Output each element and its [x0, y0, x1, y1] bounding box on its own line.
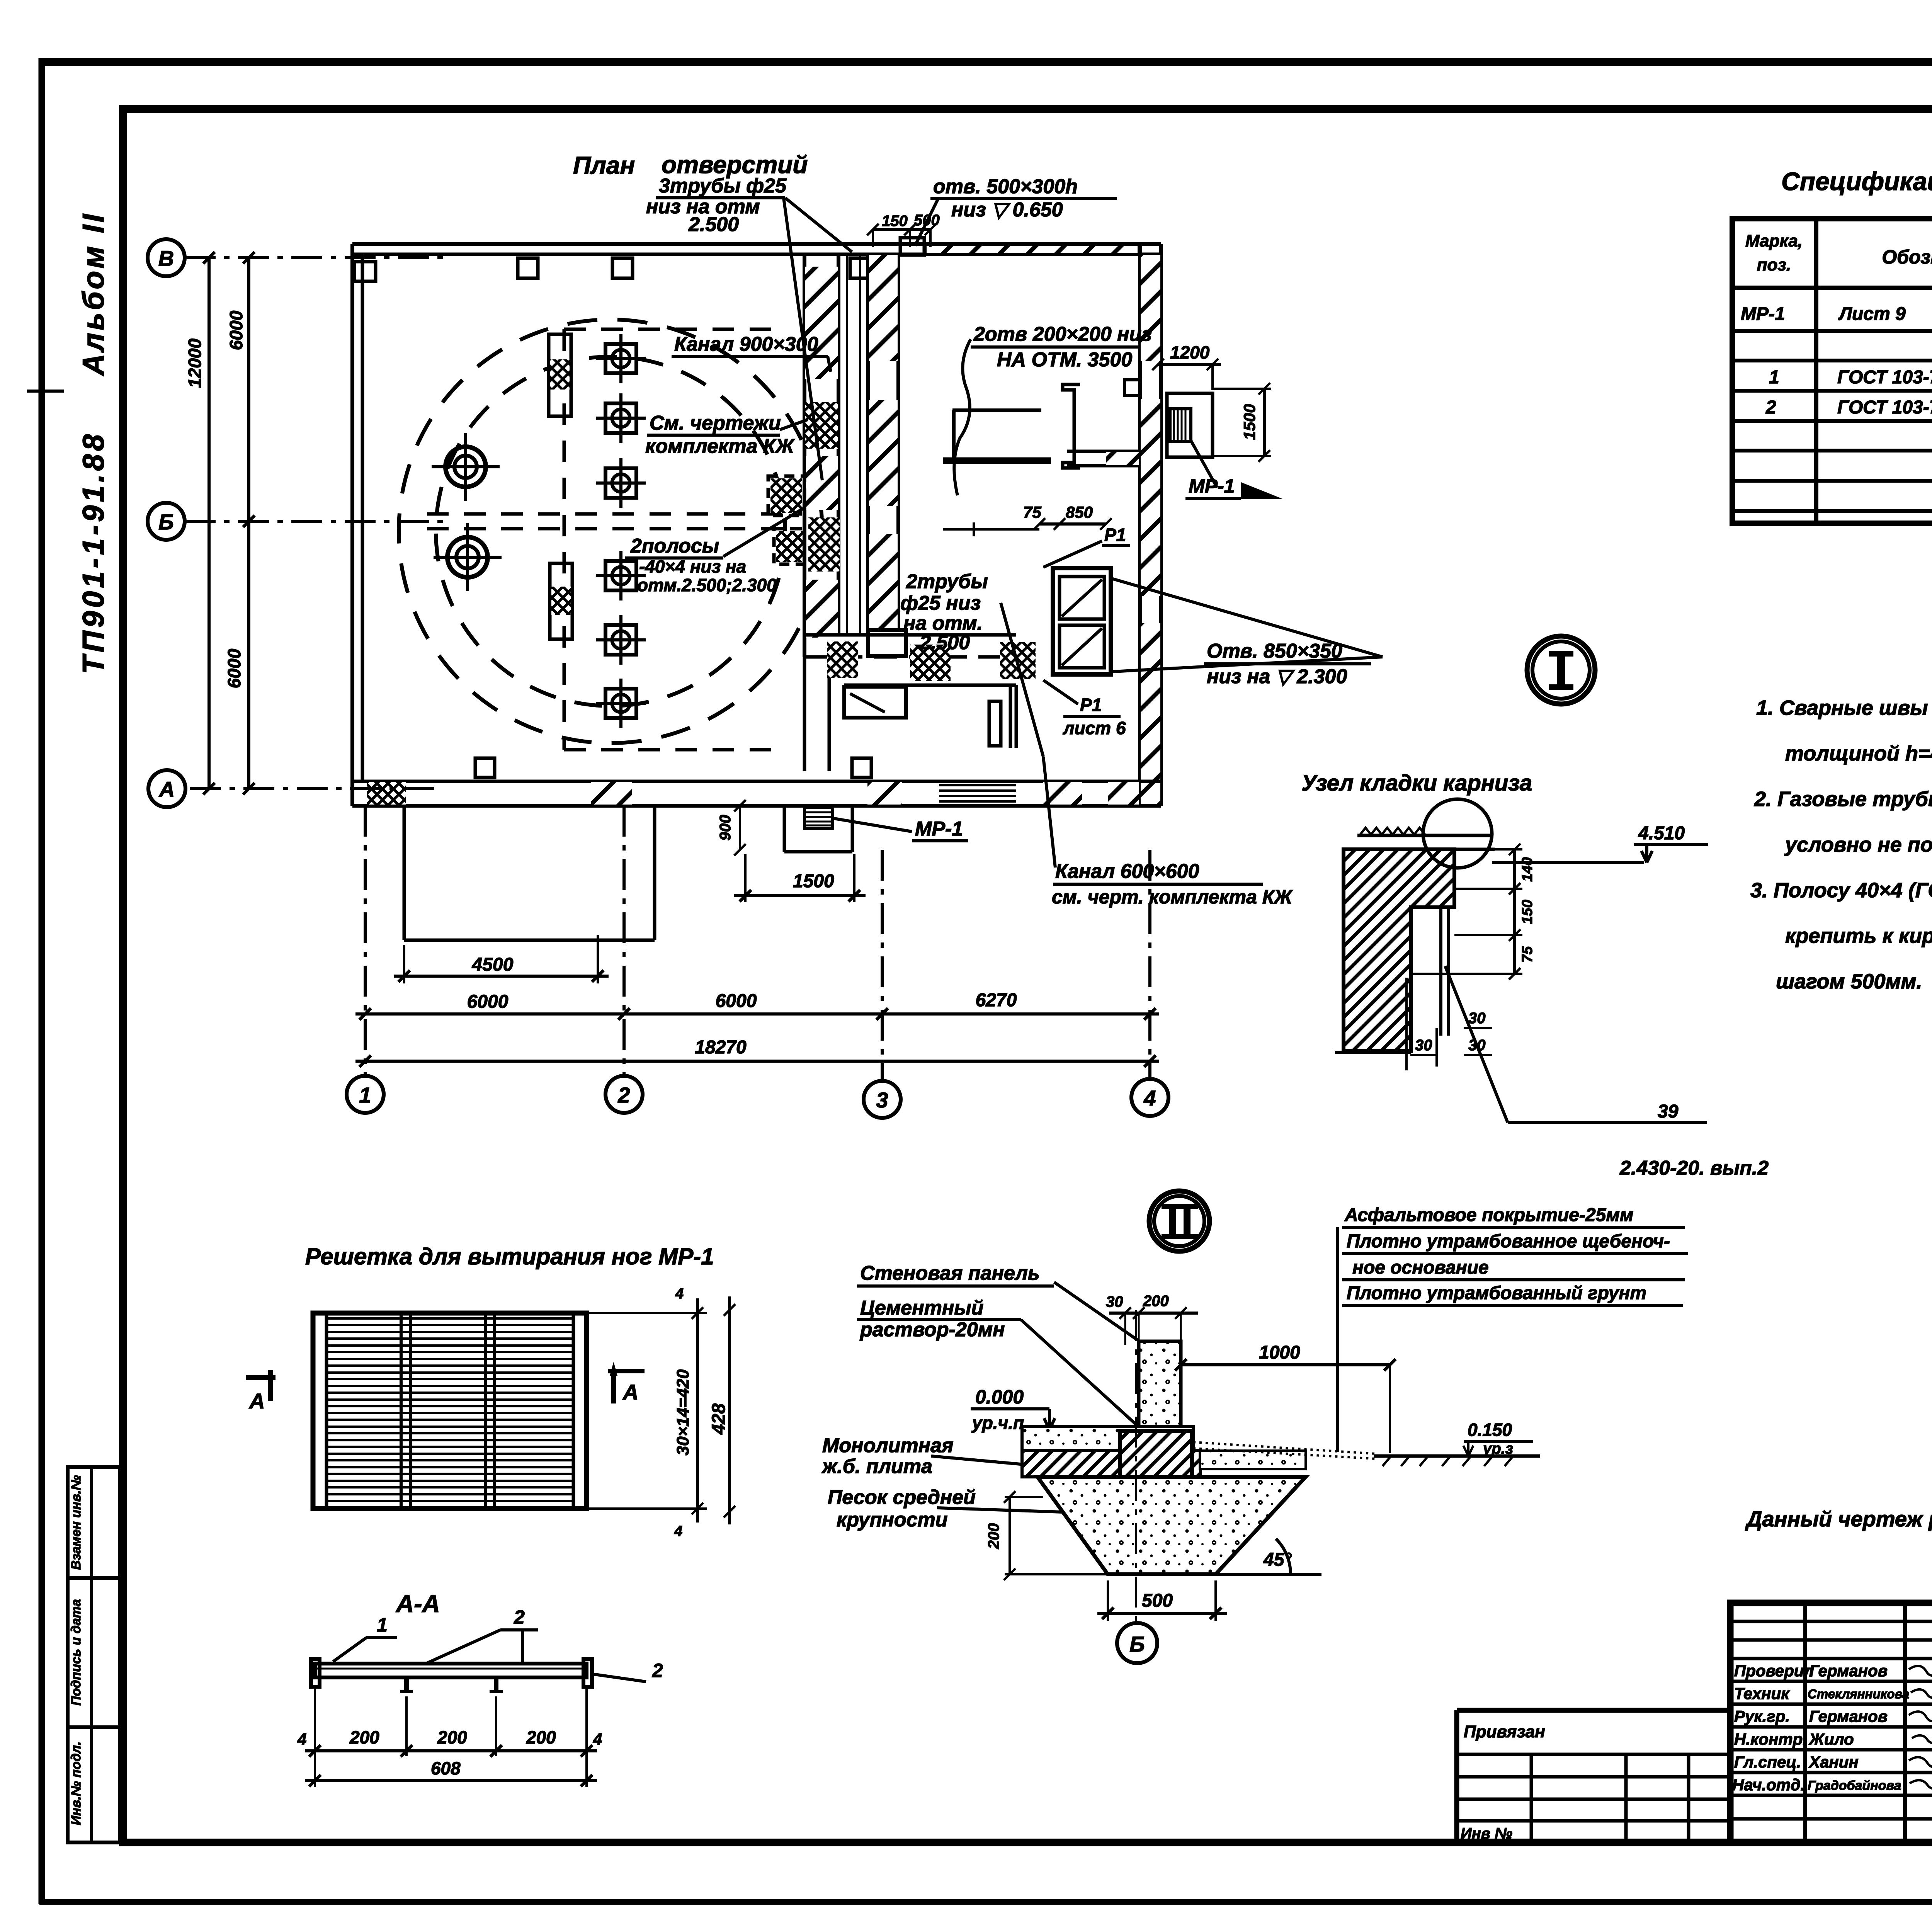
- asphalt slope dotted: [1193, 1442, 1376, 1454]
- main outline: [1730, 1603, 1932, 1842]
- svg-text:Узел кладки карниза: Узел кладки карниза: [1301, 771, 1532, 796]
- svg-text:раствор-20мн: раствор-20мн: [859, 1318, 1005, 1341]
- dim 30 200: [1109, 1312, 1198, 1315]
- svg-text:толщиной h=4мм.: толщиной h=4мм.: [1785, 742, 1932, 765]
- svg-text:2.500: 2.500: [688, 213, 739, 236]
- interior wall: [1067, 450, 1140, 453]
- svg-text:Инв №: Инв №: [1461, 1825, 1512, 1842]
- wall mounted box W2: [774, 529, 804, 564]
- section mark A right: [608, 1369, 645, 1373]
- grating right dims: [587, 1312, 707, 1314]
- top wall hatched parapet right part: [925, 245, 1139, 254]
- NOTES: [1750, 696, 1932, 993]
- signatures squiggles: [1909, 1666, 1932, 1676]
- porch depth dim 900: [739, 806, 741, 850]
- svg-text:30: 30: [1415, 1037, 1432, 1054]
- table grid: [1732, 219, 1932, 523]
- svg-text:ур.ч.п.: ур.ч.п.: [971, 1413, 1029, 1433]
- svg-text:1200: 1200: [1170, 342, 1210, 362]
- svg-text:3трубы ф25: 3трубы ф25: [659, 175, 787, 197]
- svg-text:200: 200: [349, 1727, 379, 1747]
- dim 1000: [1181, 1363, 1390, 1366]
- TITLE BLOCK: [1457, 1603, 1932, 1892]
- PLAN: interior tank and equipment: [399, 320, 822, 750]
- BOTTOM DIMENSIONS: [355, 935, 1159, 1067]
- svg-text:200: 200: [526, 1727, 556, 1747]
- svg-text:6000: 6000: [467, 992, 509, 1012]
- door jamb: [868, 630, 906, 656]
- foundation block hatched: [1120, 1431, 1192, 1532]
- svg-text:140: 140: [1519, 857, 1536, 881]
- svg-text:условно не показаны (см. че: условно не показаны (см. чертежи комплек…: [1784, 833, 1932, 856]
- DETAIL II: foundation: [821, 1191, 1688, 1663]
- column axis 4: [1148, 850, 1151, 1078]
- dashed pipe gallery: [564, 328, 781, 331]
- left border tick: [27, 390, 64, 393]
- svg-text:Привязан: Привязан: [1464, 1722, 1545, 1741]
- svg-text:лист 6: лист 6: [1063, 718, 1126, 738]
- svg-text:Н.контр.: Н.контр.: [1734, 1730, 1807, 1748]
- dim 1200: [1158, 363, 1221, 366]
- svg-text:Канал 900×300: Канал 900×300: [674, 333, 818, 356]
- dim row 6000 6000 6270: [355, 1012, 1159, 1016]
- svg-text:МР-1: МР-1: [1741, 304, 1785, 324]
- svg-text:30: 30: [1468, 1010, 1486, 1027]
- svg-text:Спецификация на решетку МР-1: Спецификация на решетку МР-1: [1781, 167, 1932, 196]
- floor slab speckled: [1022, 1427, 1193, 1451]
- svg-text:Подпись и дата: Подпись и дата: [69, 1599, 83, 1706]
- svg-text:НА ОТМ. 3500: НА ОТМ. 3500: [997, 349, 1132, 371]
- svg-text:Лист 9: Лист 9: [1838, 304, 1906, 324]
- MR-1 ENTRANCE DETAIL (top right of plan): [1152, 342, 1284, 499]
- svg-text:отв. 500×300h: отв. 500×300h: [933, 175, 1078, 198]
- svg-text:Инв.№ подл.: Инв.№ подл.: [69, 1742, 83, 1825]
- svg-text:Плотно утрамбованный грунт: Плотно утрамбованный грунт: [1347, 1283, 1646, 1303]
- svg-text:Плотно утрамбованное щебеноч-: Плотно утрамбованное щебеноч-: [1347, 1231, 1670, 1252]
- sand pit trapezoid: [1037, 1477, 1306, 1574]
- PLAN INNER LABELS: [625, 323, 1371, 908]
- detail bubble circle: [1423, 799, 1492, 868]
- anchor plate A6: [596, 679, 646, 728]
- wall panel: [1139, 1341, 1181, 1428]
- leader pipes: [785, 198, 852, 252]
- leader to MR-1 label: [834, 818, 912, 832]
- svg-text:Р1: Р1: [1080, 695, 1102, 715]
- pump target B1: [432, 433, 500, 501]
- anchor plate A1: [596, 334, 646, 383]
- svg-text:1. Сварные швы решетки МР-1: 1. Сварные швы решетки МР-1 выполнять: [1756, 696, 1932, 720]
- dashed tank circle outer: [399, 320, 822, 743]
- svg-text:200: 200: [437, 1727, 467, 1747]
- svg-text:комплекта КЖ: комплекта КЖ: [645, 435, 795, 458]
- bottom wall: [352, 780, 1161, 783]
- svg-text:75: 75: [1023, 503, 1041, 521]
- left wall: [350, 244, 354, 806]
- svg-text:2отв 200×200 низ: 2отв 200×200 низ: [973, 323, 1152, 345]
- top wall: [352, 242, 1161, 246]
- section mark A left: [246, 1375, 276, 1380]
- svg-text:Проверил: Проверил: [1734, 1662, 1814, 1680]
- svg-text:2полосы: 2полосы: [630, 535, 719, 557]
- left dim line 12000: [207, 258, 211, 789]
- svg-text:200: 200: [1143, 1293, 1169, 1310]
- left strip cells: [68, 1467, 120, 1842]
- svg-text:Асфальтовое покрытие-25мм: Асфальтовое покрытие-25мм: [1344, 1205, 1633, 1225]
- svg-text:А: А: [622, 1380, 638, 1404]
- svg-text:2. Газовые трубы в камерах: 2. Газовые трубы в камерах трансформатор…: [1754, 788, 1932, 811]
- svg-text:6270: 6270: [976, 990, 1017, 1010]
- dim 500: [1107, 1580, 1109, 1621]
- ventilation unit P1: [1053, 568, 1111, 674]
- svg-text:Стеновая панель: Стеновая панель: [860, 1262, 1040, 1284]
- dashed tank circle inner: [436, 357, 785, 706]
- svg-text:30: 30: [1106, 1293, 1123, 1310]
- right wall hatch segments: [1141, 255, 1160, 361]
- anchor plate A5: [596, 615, 646, 665]
- svg-text:ное основание: ное основание: [1352, 1257, 1489, 1278]
- svg-text:В: В: [158, 246, 174, 270]
- sheet outer border left: [39, 58, 45, 1904]
- level 4.510: [1492, 861, 1644, 864]
- DETAIL I: cornice masonry: [1301, 636, 1769, 1179]
- PLAN: upper right room fittings: [943, 339, 1383, 674]
- svg-text:ГОСТ 103-76*: ГОСТ 103-76*: [1837, 397, 1932, 418]
- svg-text:900: 900: [717, 815, 734, 841]
- attachment table: [1457, 1708, 1730, 1713]
- leader to series ref: [1445, 966, 1508, 1123]
- svg-text:А: А: [248, 1389, 265, 1413]
- pump target B2: [434, 523, 502, 591]
- svg-text:Обозначение: Обозначение: [1882, 246, 1932, 268]
- svg-text:4: 4: [674, 1523, 682, 1540]
- svg-text:Стеклянникова: Стеклянникова: [1808, 1687, 1909, 1701]
- svg-text:6000: 6000: [224, 648, 244, 688]
- svg-text:низ на ▽ 2.300: низ на ▽ 2.300: [1207, 665, 1347, 688]
- svg-text:75: 75: [1519, 946, 1536, 963]
- anchor plate A2: [596, 393, 646, 443]
- svg-text:850: 850: [1066, 503, 1093, 521]
- svg-text:ГОСТ 103-76*: ГОСТ 103-76*: [1837, 367, 1932, 388]
- svg-text:500: 500: [1142, 1591, 1173, 1611]
- PLAN: transformer room wall: [868, 254, 906, 656]
- PLAN: lower right room: [844, 685, 1016, 801]
- svg-text:39: 39: [1658, 1101, 1679, 1122]
- svg-text:шагом 500мм.: шагом 500мм.: [1776, 970, 1922, 993]
- svg-text:2: 2: [1765, 397, 1776, 418]
- column axis 1: [364, 806, 367, 1075]
- room divider wall lower: [804, 633, 1016, 637]
- svg-text:План: План: [573, 151, 635, 179]
- svg-text:3: 3: [876, 1088, 888, 1112]
- svg-text:3. Полосу 40×4 (ГОСТ 103-76*),: 3. Полосу 40×4 (ГОСТ 103-76*), L=12,0м; …: [1750, 879, 1932, 902]
- grating bars: [328, 1318, 573, 1501]
- sheet outer border bottom: [39, 1899, 1932, 1905]
- svg-text:См. чертежи: См. чертежи: [650, 412, 781, 434]
- AXES: [148, 239, 1168, 1118]
- leader to hole label: [1113, 579, 1383, 657]
- svg-text:150: 150: [882, 213, 908, 230]
- axis B row: [185, 256, 448, 259]
- svg-text:ф25 низ: ф25 низ: [900, 592, 981, 614]
- svg-text:Гл.спец.: Гл.спец.: [1734, 1753, 1801, 1771]
- sheet outer border top: [39, 58, 1932, 66]
- SPEC TABLE: [1732, 167, 1932, 523]
- dim 1500 vertical: [1263, 389, 1266, 456]
- LEFT-MARGIN: [68, 212, 120, 1842]
- svg-text:428: 428: [709, 1403, 729, 1435]
- svg-text:2: 2: [652, 1660, 663, 1681]
- grate in south wall: [939, 784, 1016, 786]
- svg-text:4.510: 4.510: [1638, 823, 1685, 844]
- dims 4 200 200 200 4: [314, 1685, 316, 1787]
- svg-text:Монолитная: Монолитная: [822, 1434, 954, 1457]
- grating frame: [313, 1313, 587, 1509]
- column axis 2: [622, 806, 626, 1075]
- PLAN: middle wall with channel: [768, 254, 1036, 771]
- svg-text:30×14=420: 30×14=420: [673, 1369, 692, 1455]
- svg-text:Германов: Германов: [1809, 1662, 1888, 1680]
- opening 500x300 marker in top wall: [900, 238, 924, 255]
- svg-text:1: 1: [1769, 367, 1779, 388]
- svg-text:Б: Б: [158, 510, 174, 534]
- pilaster squares above bottom wall: [475, 758, 495, 777]
- ground line: [1374, 1454, 1540, 1458]
- svg-text:Взамен инв.№: Взамен инв.№: [69, 1475, 83, 1570]
- svg-text:Нач.отд.: Нач.отд.: [1732, 1776, 1805, 1794]
- svg-text:4: 4: [1143, 1086, 1156, 1110]
- mat MR-1 symbol: [804, 808, 833, 828]
- roof slab: [1357, 834, 1492, 837]
- column axis 3: [881, 850, 884, 1080]
- svg-text:Рук.гр.: Рук.гр.: [1734, 1707, 1790, 1725]
- dim 18270: [355, 1060, 1159, 1063]
- bottom wall hatch patches: [367, 782, 406, 805]
- svg-text:ж.б. плита: ж.б. плита: [821, 1455, 932, 1478]
- svg-text:1: 1: [359, 1083, 371, 1107]
- svg-text:ТП901-1-91.88: ТП901-1-91.88: [76, 431, 110, 674]
- svg-text:Ханин: Ханин: [1808, 1753, 1859, 1771]
- svg-text:Б: Б: [1129, 1632, 1145, 1656]
- svg-text:6000: 6000: [226, 310, 246, 350]
- svg-text:Канал 600×600: Канал 600×600: [1055, 860, 1199, 883]
- svg-text:отм.2.500;2.300: отм.2.500;2.300: [637, 575, 777, 595]
- monolithic slab hatched: [1022, 1451, 1201, 1477]
- dim 200 left: [1009, 1497, 1011, 1574]
- svg-text:4: 4: [297, 1730, 306, 1748]
- svg-text:12000: 12000: [185, 339, 205, 388]
- axis A row: [190, 787, 439, 790]
- svg-text:см. черт. комплекта КЖ: см. черт. комплекта КЖ: [1052, 886, 1293, 908]
- svg-text:2.430-20. вып.2: 2.430-20. вып.2: [1619, 1157, 1769, 1179]
- signature rows: [1730, 1620, 1932, 1623]
- svg-text:Германов: Германов: [1809, 1707, 1888, 1725]
- PLAN TOP LABELS: [573, 151, 1117, 480]
- right wall window sill: [1124, 380, 1141, 395]
- dim 608: [305, 1779, 597, 1782]
- svg-text:МР-1: МР-1: [915, 818, 963, 840]
- svg-text:2.500: 2.500: [919, 631, 970, 654]
- shelf: [952, 408, 1041, 412]
- svg-text:Цементный: Цементный: [860, 1297, 983, 1319]
- svg-text:608: 608: [431, 1758, 461, 1778]
- anchor plate A3: [596, 458, 646, 508]
- svg-text:200: 200: [985, 1523, 1002, 1550]
- bar: [315, 1664, 587, 1677]
- svg-text:Песок средней: Песок средней: [828, 1486, 976, 1509]
- pilaster squares under top wall: [354, 262, 376, 281]
- column C: [1063, 384, 1080, 468]
- svg-text:1000: 1000: [1259, 1342, 1300, 1363]
- svg-text:1: 1: [377, 1614, 388, 1636]
- axis Б row: [185, 520, 444, 523]
- svg-text:150: 150: [1519, 900, 1536, 924]
- corridor channel lines: [846, 256, 848, 634]
- signature column lines: [1803, 1603, 1807, 1842]
- wall mounted box W1: [768, 476, 804, 515]
- svg-text:Р1: Р1: [1104, 525, 1126, 545]
- svg-text:Градобайнова: Градобайнова: [1808, 1778, 1901, 1793]
- svg-text:18270: 18270: [695, 1037, 747, 1058]
- strip plate S2: [550, 563, 572, 639]
- svg-text:0.000: 0.000: [975, 1386, 1024, 1408]
- svg-text:2: 2: [514, 1606, 525, 1628]
- svg-text:1500: 1500: [1240, 404, 1259, 440]
- svg-text:4: 4: [675, 1286, 684, 1302]
- left dim line 6000+6000: [247, 258, 250, 789]
- svg-text:6000: 6000: [716, 991, 757, 1011]
- svg-text:Альбом II: Альбом II: [76, 212, 110, 376]
- svg-text:ур.з: ур.з: [1482, 1440, 1513, 1457]
- dim 4500: [403, 945, 405, 983]
- svg-text:Техник: Техник: [1734, 1684, 1790, 1703]
- svg-text:2: 2: [617, 1083, 630, 1107]
- detail marker I: [1527, 636, 1595, 704]
- porch pit: [403, 806, 406, 940]
- svg-text:Решетка для вытирания ног: Решетка для вытирания ног МР-1: [305, 1244, 714, 1269]
- axis B bubble: [1135, 1310, 1137, 1621]
- porch dim 1500: [717, 800, 866, 902]
- svg-text:крепить к кирпичной кладке: крепить к кирпичной кладке при помощи дю…: [1785, 924, 1932, 948]
- svg-text:крупности: крупности: [837, 1509, 948, 1531]
- right wall: [1138, 244, 1142, 806]
- svg-text:4500: 4500: [472, 954, 514, 975]
- wavy conduit leader: [954, 339, 971, 495]
- svg-text:500: 500: [914, 212, 940, 229]
- PLAN: entrance porch with mat: [404, 806, 968, 940]
- svg-text:1500: 1500: [793, 871, 834, 891]
- svg-text:0.150: 0.150: [1468, 1420, 1512, 1440]
- masonry wall hatched: [1344, 849, 1454, 1051]
- detail marker II: [1149, 1191, 1209, 1251]
- svg-text:А-А: А-А: [395, 1590, 440, 1618]
- PLAN: building outline: [352, 238, 1161, 806]
- svg-text:Марка,: Марка,: [1745, 231, 1803, 250]
- svg-text:-40×4 низ на: -40×4 низ на: [639, 556, 746, 577]
- svg-text:Данный чертеж рассматривать: Данный чертеж рассматривать совместно с …: [1745, 1507, 1932, 1531]
- svg-text:А: А: [158, 777, 175, 801]
- svg-text:Жило: Жило: [1808, 1730, 1854, 1748]
- svg-text:2трубы: 2трубы: [906, 570, 988, 593]
- svg-text:низ ▽ 0.650: низ ▽ 0.650: [951, 199, 1063, 221]
- GRATING MR-1 DRAWING: [305, 1244, 714, 1509]
- svg-text:поз.: поз.: [1757, 255, 1791, 274]
- svg-text:4: 4: [593, 1730, 602, 1748]
- anchor plate A4: [596, 551, 646, 601]
- fascia boards: [1439, 907, 1442, 1036]
- right dim chain: [1492, 848, 1522, 851]
- svg-text:Отв. 850×350: Отв. 850×350: [1207, 640, 1342, 662]
- SECTION A-A: [297, 1590, 663, 1787]
- strip plate S1: [549, 334, 571, 416]
